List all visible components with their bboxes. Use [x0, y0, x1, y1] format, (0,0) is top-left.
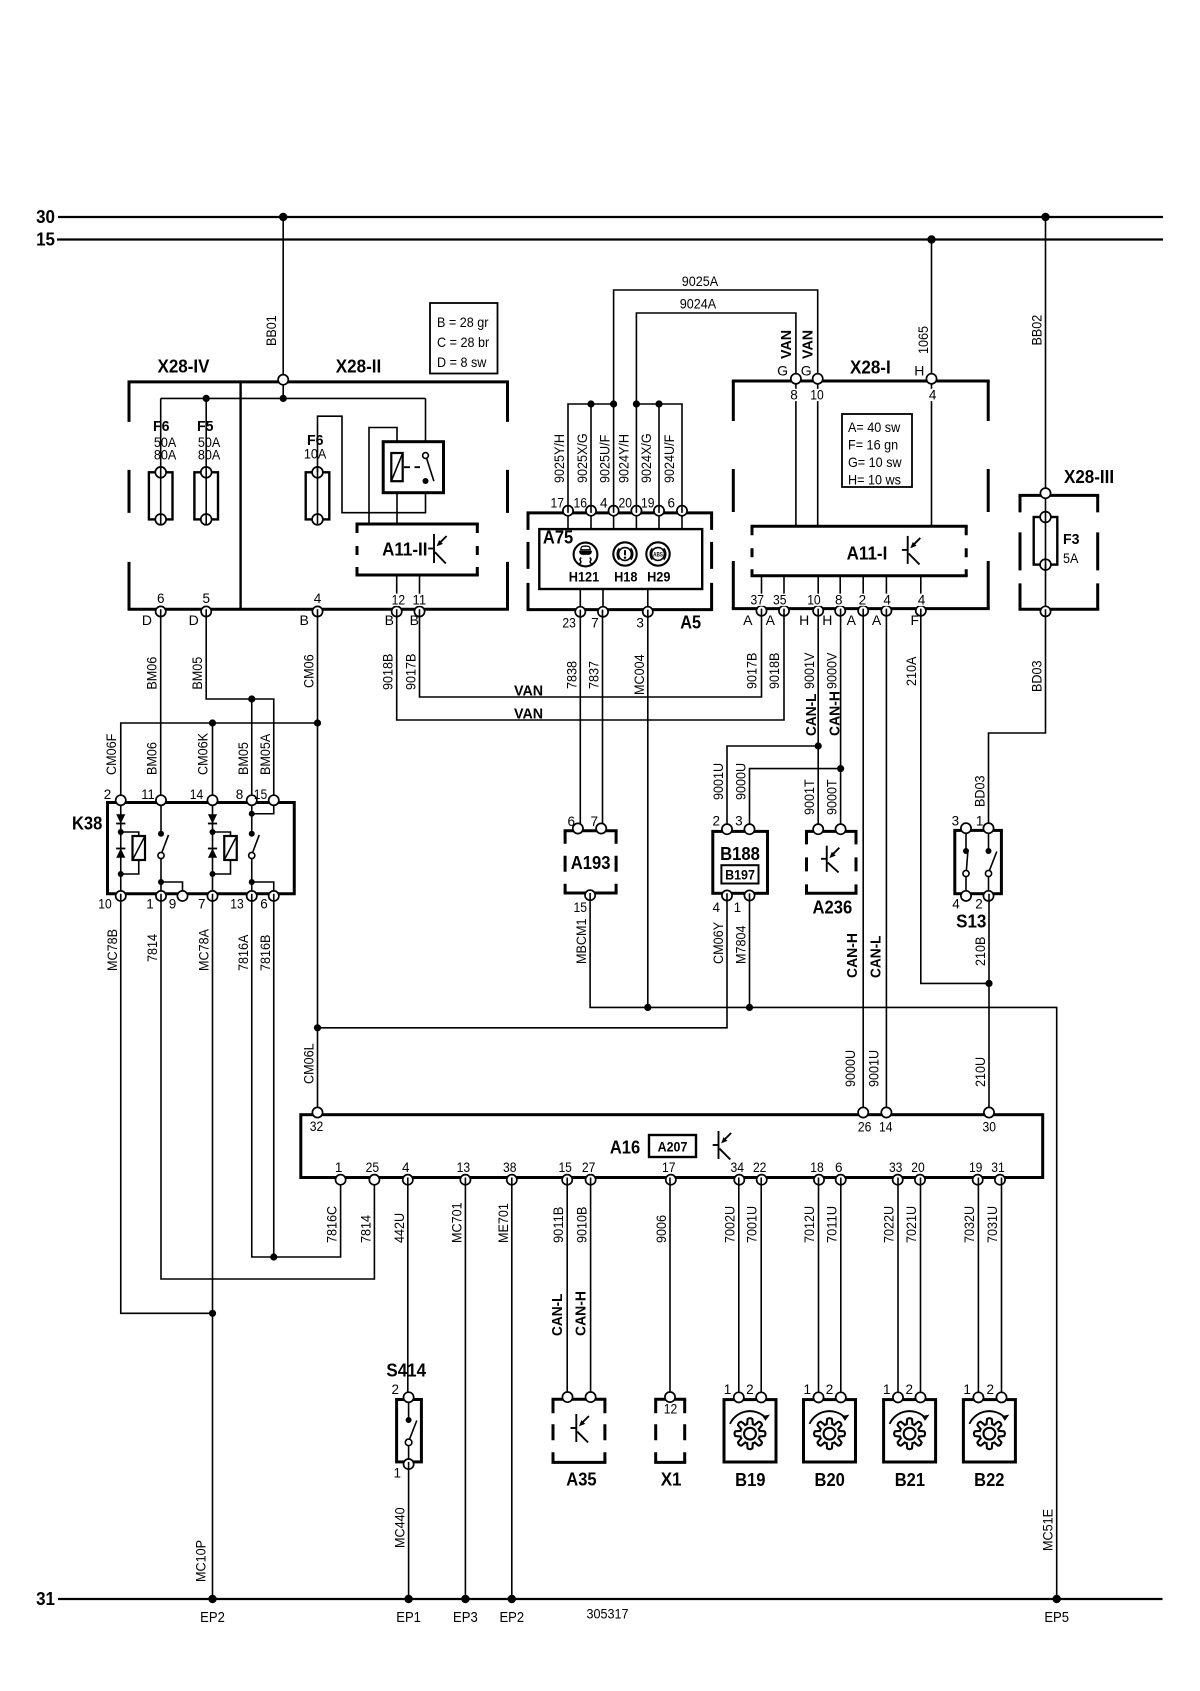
- svg-text:B: B: [410, 612, 419, 628]
- svg-text:9006: 9006: [653, 1215, 669, 1243]
- svg-text:27: 27: [582, 1160, 596, 1175]
- svg-text:B: B: [299, 612, 308, 628]
- svg-text:CAN-L: CAN-L: [803, 694, 820, 737]
- svg-text:A: A: [847, 612, 857, 628]
- svg-text:38: 38: [503, 1160, 517, 1175]
- svg-text:12: 12: [392, 593, 406, 608]
- pin 10 (X28-I top): [809, 374, 825, 403]
- svg-text:19: 19: [969, 1160, 983, 1175]
- svg-text:2: 2: [746, 1382, 754, 1397]
- svg-text:CM06: CM06: [301, 654, 317, 688]
- svg-text:A: A: [743, 612, 753, 628]
- pin 6 (X28-IV): [156, 591, 166, 617]
- relay coil (K38 right): [213, 832, 237, 874]
- svg-text:10: 10: [807, 593, 821, 608]
- svg-text:X28-III: X28-III: [1064, 467, 1114, 487]
- svg-text:26: 26: [858, 1120, 872, 1135]
- pin 1 (B20): [803, 1382, 823, 1403]
- svg-text:F5: F5: [197, 418, 214, 435]
- pin (A35 left): [562, 1392, 572, 1402]
- pin 6 (A16): [835, 1160, 846, 1185]
- svg-text:9001T: 9001T: [801, 779, 817, 815]
- switch contact (S13 left, closed): [963, 848, 969, 877]
- svg-text:32: 32: [310, 1119, 324, 1134]
- wire colour letters A A H H A A F: [743, 612, 919, 628]
- wire 9006: [653, 1178, 670, 1400]
- svg-text:9018B: 9018B: [380, 654, 396, 690]
- svg-text:H= 10 ws: H= 10 ws: [848, 472, 901, 488]
- module A193: [564, 831, 618, 893]
- ground EP1: [396, 1595, 421, 1626]
- svg-text:7021U: 7021U: [903, 1206, 919, 1243]
- wheel speed sensor B22: [963, 1400, 1015, 1490]
- pin 1 (S414): [393, 1459, 413, 1481]
- svg-text:9025U/F: 9025U/F: [597, 435, 613, 483]
- diode (K38 left, down): [116, 814, 125, 823]
- pin 1 (B188): [734, 890, 755, 915]
- svg-text:9010B: 9010B: [574, 1207, 590, 1243]
- pin 34 (A16): [731, 1160, 745, 1185]
- net 9024 (A75 pins 20/19/6): [615, 296, 796, 513]
- svg-text:9000V: 9000V: [824, 652, 840, 689]
- svg-text:B22: B22: [974, 1470, 1004, 1490]
- svg-text:VAN: VAN: [514, 683, 543, 700]
- wire A75 pin17: [567, 513, 569, 529]
- svg-text:A5: A5: [680, 612, 701, 632]
- junction rail15/1065: [927, 235, 935, 243]
- pin 8 (X28-I top): [789, 374, 801, 403]
- pin 2 (B188): [712, 814, 732, 835]
- ECU A35: [552, 1399, 607, 1489]
- svg-text:9000T: 9000T: [824, 779, 840, 815]
- svg-text:1: 1: [335, 1160, 343, 1175]
- pin 12 (X1): [665, 1392, 675, 1402]
- switch S414 box: [397, 1400, 422, 1462]
- svg-text:B19: B19: [735, 1470, 765, 1490]
- wire CM06Y: [314, 893, 727, 1031]
- svg-text:6: 6: [260, 897, 268, 912]
- pin 25 (A16): [366, 1160, 380, 1185]
- wire 9000V / CAN-H: [824, 609, 844, 832]
- A5 label: [680, 612, 701, 632]
- wire 7021U: [903, 1178, 921, 1400]
- svg-text:B188: B188: [720, 844, 760, 864]
- wire F5 feed: [205, 398, 207, 472]
- pin 17 (A16): [662, 1160, 676, 1185]
- svg-text:6: 6: [157, 591, 165, 606]
- ground EP2 (left): [200, 1595, 225, 1626]
- svg-text:BM05: BM05: [189, 657, 205, 690]
- svg-text:20: 20: [911, 1160, 925, 1175]
- svg-text:9024A: 9024A: [680, 296, 717, 312]
- K38 pin15 link wire: [249, 803, 274, 817]
- label VAN (pin 8): [778, 330, 795, 359]
- wire 7001U: [744, 1178, 762, 1400]
- wire MC78A / MC10P: [193, 894, 217, 1599]
- wire A75 pin20: [635, 513, 637, 529]
- svg-text:X28-II: X28-II: [336, 357, 381, 377]
- svg-text:16: 16: [574, 496, 588, 511]
- pin 30 (A16): [983, 1107, 997, 1134]
- ground EP5: [1044, 1595, 1069, 1626]
- pin (A236 left): [813, 824, 823, 834]
- svg-text:210A: 210A: [903, 656, 919, 686]
- fuse F6 10A: [306, 467, 330, 525]
- pin 3 (B188): [735, 814, 754, 835]
- fusebox X28-IV/X28-II outline: [128, 382, 510, 609]
- svg-text:X28-IV: X28-IV: [158, 357, 210, 377]
- switch contact (K38 right): [249, 831, 260, 859]
- svg-text:MC51E: MC51E: [1040, 1509, 1056, 1551]
- svg-text:33: 33: [889, 1160, 903, 1175]
- svg-text:305317: 305317: [587, 1606, 629, 1622]
- wire X28-I pin10 to A11-I: [817, 381, 819, 526]
- svg-text:A207: A207: [658, 1140, 688, 1155]
- pin 35 (X28-I): [772, 593, 789, 616]
- svg-text:9024X/G: 9024X/G: [638, 433, 654, 483]
- power rail 15: [57, 238, 1163, 240]
- indicator lamp H121: [569, 543, 600, 585]
- svg-text:31: 31: [991, 1160, 1005, 1175]
- wire BM05: [189, 609, 252, 802]
- svg-text:9: 9: [169, 897, 177, 912]
- svg-text:7002U: 7002U: [721, 1206, 737, 1243]
- combination display A5 outline: [527, 513, 714, 610]
- wire 210B / 210U: [972, 894, 993, 1115]
- svg-text:BM05A: BM05A: [257, 733, 273, 775]
- fuse F5 50A/80A: [194, 467, 218, 525]
- fusebox label X28-IV: [158, 357, 210, 377]
- pin 8 (K38): [236, 787, 257, 805]
- svg-text:4: 4: [314, 591, 322, 606]
- ground rail 31 label: [36, 1589, 55, 1609]
- svg-text:3: 3: [952, 813, 960, 828]
- wire CM06K branch: [195, 719, 217, 802]
- svg-text:13: 13: [457, 1160, 471, 1175]
- wire A75 pin6: [681, 513, 683, 529]
- wire F3 feed: [1045, 495, 1047, 517]
- fuse F3 labels: [1063, 531, 1080, 566]
- legend box wire colours: [430, 303, 498, 374]
- svg-text:14: 14: [879, 1120, 893, 1135]
- svg-text:9025A: 9025A: [682, 273, 719, 289]
- wire CAN-L trunk: [865, 609, 886, 1115]
- svg-text:7022U: 7022U: [881, 1206, 897, 1243]
- svg-text:2: 2: [712, 814, 720, 829]
- svg-text:80A: 80A: [198, 447, 221, 463]
- svg-text:9018B: 9018B: [766, 653, 782, 689]
- ECU A11-II: [356, 524, 479, 575]
- wire CM06F branch: [103, 719, 321, 802]
- svg-text:CAN-H: CAN-H: [573, 1291, 590, 1336]
- pin 1 (S13): [976, 813, 994, 833]
- wire A75 pin19: [658, 513, 660, 529]
- pin 2 (B22): [986, 1382, 1006, 1403]
- svg-text:15: 15: [254, 787, 268, 802]
- pin 19 (A16): [969, 1160, 983, 1185]
- ECU A236: [805, 831, 858, 917]
- svg-text:9025X/G: 9025X/G: [574, 433, 590, 483]
- junction rail30/BB01: [279, 213, 287, 221]
- svg-text:6: 6: [567, 814, 575, 829]
- svg-text:EP3: EP3: [453, 1610, 478, 1626]
- svg-text:1: 1: [803, 1382, 811, 1397]
- svg-text:A: A: [872, 612, 882, 628]
- svg-text:3: 3: [636, 616, 644, 631]
- svg-text:EP5: EP5: [1044, 1610, 1069, 1626]
- svg-text:4: 4: [402, 1160, 410, 1175]
- svg-text:H: H: [799, 612, 809, 628]
- svg-text:9000U: 9000U: [842, 1050, 858, 1087]
- svg-text:15: 15: [574, 900, 588, 915]
- diode (K38 right, down): [208, 814, 217, 823]
- svg-text:210U: 210U: [972, 1057, 988, 1087]
- junction rail30/BB02: [1041, 213, 1049, 221]
- drawing number 305317: [587, 1606, 629, 1622]
- svg-text:7011U: 7011U: [823, 1206, 839, 1243]
- svg-text:A: A: [766, 612, 776, 628]
- relay switch feed wire: [425, 398, 427, 452]
- wire A75 pin16: [590, 513, 592, 529]
- pin 2 (B20): [826, 1382, 846, 1403]
- svg-text:X1: X1: [661, 1469, 682, 1489]
- K38 switch 1 output wire: [158, 859, 183, 894]
- svg-text:BM05: BM05: [235, 742, 251, 775]
- wire 7022U: [881, 1178, 899, 1400]
- K38 switch 1 feed wire: [160, 803, 162, 834]
- relay switch output wire: [318, 416, 426, 513]
- sensor B188: [713, 831, 768, 893]
- diode (K38 left, up): [116, 849, 125, 858]
- connector pin X28-II/BB01: [278, 375, 288, 385]
- pin 20 (A5): [619, 496, 642, 516]
- wire 7011U: [823, 1178, 841, 1400]
- pin 1 (A16): [335, 1160, 346, 1185]
- svg-text:9025Y/H: 9025Y/H: [551, 434, 567, 483]
- pin 31 (A16): [991, 1160, 1005, 1185]
- pin 38 (A16): [503, 1160, 517, 1185]
- svg-text:35: 35: [773, 593, 787, 608]
- fuse F6 50A/80A labels: [153, 418, 177, 463]
- svg-text:VAN: VAN: [514, 706, 543, 723]
- svg-text:15: 15: [558, 1160, 572, 1175]
- fuse F5 50A/80A labels: [197, 418, 221, 463]
- svg-text:2: 2: [986, 1382, 994, 1397]
- svg-text:B: B: [385, 612, 394, 628]
- pin 37 (X28-I): [749, 593, 766, 616]
- svg-text:A35: A35: [566, 1469, 596, 1489]
- svg-text:17: 17: [551, 496, 565, 511]
- svg-text:ABS: ABS: [653, 551, 663, 558]
- svg-text:S13: S13: [956, 911, 986, 931]
- svg-text:F= 16 gn: F= 16 gn: [848, 437, 898, 453]
- ECU A11-I: [751, 526, 968, 576]
- svg-text:7814: 7814: [144, 934, 160, 962]
- svg-text:MC701: MC701: [448, 1202, 464, 1243]
- pin 1 (B22): [963, 1382, 983, 1403]
- svg-text:9011B: 9011B: [550, 1207, 566, 1243]
- wire BM05A branch: [248, 695, 274, 802]
- wire BB02: [1029, 217, 1046, 495]
- svg-text:H121: H121: [569, 569, 600, 584]
- svg-text:7: 7: [591, 616, 599, 631]
- wire 442U: [391, 1178, 408, 1400]
- A11-I output wire x=784: [783, 576, 785, 609]
- svg-text:5: 5: [202, 591, 210, 606]
- svg-text:H: H: [914, 362, 924, 378]
- svg-text:ME701: ME701: [495, 1203, 511, 1243]
- svg-text:9017B: 9017B: [744, 653, 760, 689]
- svg-text:MC78A: MC78A: [196, 928, 212, 971]
- pin 4 (S13): [952, 891, 971, 912]
- svg-text:CM06L: CM06L: [301, 1043, 317, 1084]
- svg-text:2: 2: [859, 593, 867, 608]
- wire MC440: [392, 1462, 409, 1599]
- fusebox label X28-II: [336, 357, 381, 377]
- wire 7816A: [235, 894, 341, 1257]
- wire A75 out3: [647, 589, 649, 610]
- K38 coil branch 1 wire: [120, 803, 122, 894]
- svg-text:X28-I: X28-I: [850, 358, 891, 378]
- pin 4 (A16): [402, 1160, 413, 1185]
- svg-text:4: 4: [712, 900, 720, 915]
- wire BM06: [144, 609, 161, 802]
- pin 2 (X28-I): [858, 593, 868, 616]
- pin 19 (A5): [641, 496, 664, 516]
- pin 11 (K38): [141, 787, 166, 805]
- pin 6 (A5): [667, 496, 687, 516]
- svg-text:23: 23: [562, 616, 576, 631]
- pin 3 (S13): [952, 813, 971, 833]
- wire 7838: [563, 610, 580, 831]
- svg-text:D: D: [142, 612, 152, 628]
- label H (pin 4): [914, 362, 924, 378]
- svg-text:8: 8: [835, 593, 843, 608]
- power rail 30 label: [36, 207, 55, 227]
- relay (X28-II): [383, 442, 443, 493]
- junction rail/F5: [203, 395, 210, 402]
- svg-text:A193: A193: [571, 853, 611, 873]
- junction: [118, 829, 124, 835]
- svg-text:A75: A75: [543, 527, 573, 547]
- svg-text:9017B: 9017B: [403, 654, 419, 690]
- switch contact (K38 left): [158, 831, 169, 859]
- pin 18 (A16): [810, 1160, 824, 1185]
- pin 4 (X28-II): [312, 591, 322, 617]
- svg-text:30: 30: [983, 1120, 997, 1135]
- svg-text:B21: B21: [895, 1470, 925, 1490]
- svg-text:9000U: 9000U: [733, 763, 749, 800]
- svg-text:1: 1: [146, 897, 154, 912]
- pin 6 (K38): [260, 891, 279, 912]
- svg-text:7814: 7814: [357, 1215, 373, 1243]
- wire A75 out23: [579, 589, 581, 610]
- pin 22 (A16): [753, 1160, 767, 1185]
- ground rail 31: [58, 1598, 1163, 1600]
- wheel speed sensor B21: [884, 1400, 936, 1490]
- svg-text:14: 14: [190, 787, 204, 802]
- pin (A35 right): [586, 1392, 596, 1402]
- switch contact (S414): [405, 1400, 416, 1462]
- pin 6 (A193): [567, 814, 583, 834]
- S13 contact feed wires: [966, 830, 989, 851]
- wire MC78B: [104, 894, 213, 1314]
- wire 9011B / CAN-L: [549, 1178, 567, 1400]
- wire 7031U: [984, 1178, 1002, 1400]
- pin 14 (A16): [879, 1107, 893, 1134]
- svg-text:1: 1: [724, 1382, 732, 1397]
- A11-I output wire x=761.5: [761, 576, 763, 609]
- fuse F6 10A labels: [304, 432, 327, 462]
- svg-text:19: 19: [641, 496, 655, 511]
- svg-text:1: 1: [883, 1382, 891, 1397]
- svg-text:2: 2: [975, 897, 983, 912]
- pin 16 (A5): [574, 496, 597, 516]
- svg-text:M7804: M7804: [733, 925, 749, 964]
- connector label X28-III: [1064, 467, 1114, 487]
- svg-text:EP1: EP1: [396, 1610, 421, 1626]
- wire 9018B / VAN lower: [380, 609, 784, 723]
- svg-text:VAN: VAN: [800, 330, 817, 359]
- svg-text:D = 8 sw: D = 8 sw: [437, 354, 487, 370]
- pin 4 (X28-I bottom A): [881, 593, 892, 616]
- label G (pin 10): [801, 362, 812, 378]
- ground EP3: [453, 1595, 478, 1626]
- wire 9017B / VAN upper: [403, 609, 762, 700]
- pin 15 (A16): [558, 1160, 572, 1185]
- pin 2 (B19): [746, 1382, 766, 1403]
- svg-text:MC10P: MC10P: [193, 1540, 209, 1582]
- svg-text:F3: F3: [1063, 531, 1080, 548]
- wire 9000U branch: [733, 763, 845, 832]
- svg-text:9024Y/H: 9024Y/H: [615, 434, 631, 483]
- pin 4 (X28-I top): [926, 374, 937, 403]
- pin 5 (X28-IV): [201, 591, 211, 617]
- svg-text:9001U: 9001U: [710, 763, 726, 800]
- wire ME701: [495, 1178, 512, 1600]
- wire 7816B: [257, 894, 278, 1261]
- pin 27 (A16): [582, 1160, 596, 1185]
- svg-text:10: 10: [98, 897, 112, 912]
- svg-text:8: 8: [236, 787, 244, 802]
- pin 17 (A5): [551, 496, 574, 516]
- wire 7814: [144, 894, 374, 1279]
- pin 12 (X28-II): [390, 593, 406, 617]
- svg-text:12: 12: [664, 1402, 678, 1417]
- svg-text:F6: F6: [153, 418, 170, 435]
- ECU A16 box: [301, 1115, 1043, 1178]
- wheel speed sensor B20: [804, 1400, 856, 1490]
- relay coil (K38 left): [121, 832, 145, 874]
- wire X28-I pin8 to A11-I: [795, 381, 797, 526]
- pin 2 (B21): [905, 1382, 925, 1403]
- connector pin X28-III top: [1040, 488, 1050, 498]
- svg-text:1065: 1065: [915, 326, 931, 354]
- svg-text:H29: H29: [647, 569, 670, 584]
- svg-text:31: 31: [36, 1589, 55, 1609]
- junction rail/BB01: [280, 395, 287, 402]
- svg-text:10A: 10A: [304, 446, 327, 462]
- switch S13 box: [955, 830, 1002, 931]
- pin (A236 right): [836, 824, 846, 834]
- svg-text:BB02: BB02: [1029, 315, 1045, 346]
- svg-text:1: 1: [963, 1382, 971, 1397]
- svg-text:4: 4: [929, 388, 937, 403]
- svg-text:CAN-L: CAN-L: [867, 936, 884, 979]
- svg-text:F: F: [910, 612, 919, 628]
- svg-text:CAN-H: CAN-H: [827, 691, 844, 736]
- svg-text:9024U/F: 9024U/F: [661, 435, 677, 483]
